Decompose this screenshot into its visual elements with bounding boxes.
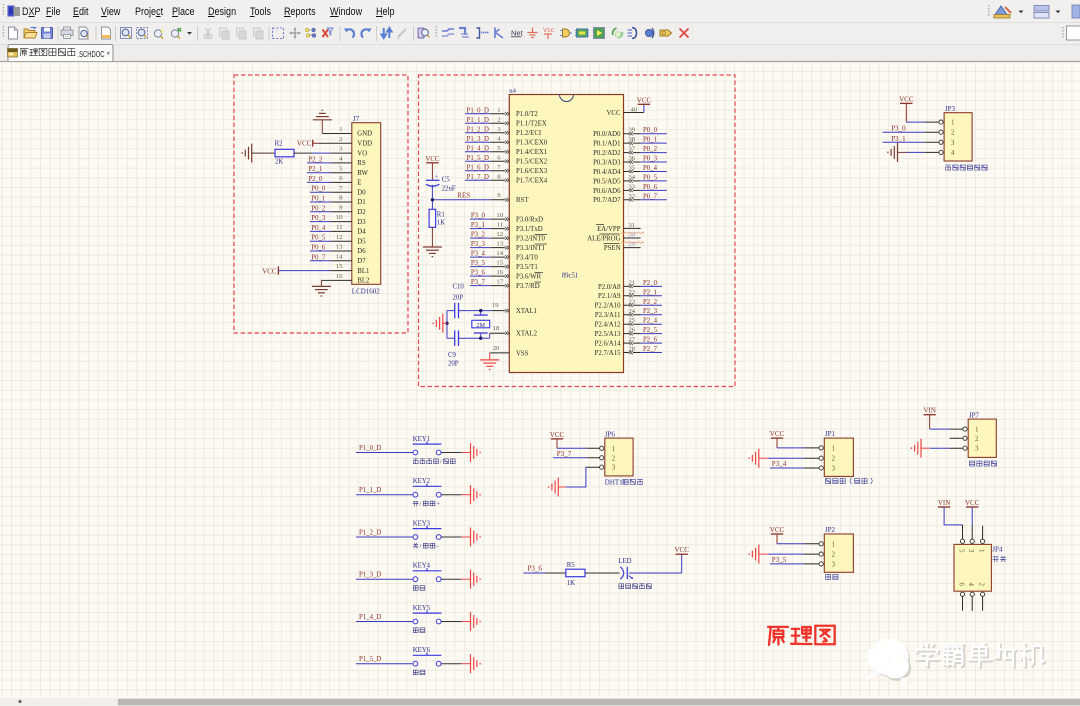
svg-text:17: 17 <box>496 279 503 286</box>
svg-text:1K: 1K <box>567 580 575 587</box>
svg-text:2: 2 <box>832 551 836 559</box>
svg-text:P3.6/WR: P3.6/WR <box>516 274 542 281</box>
svg-text:PSEN: PSEN <box>604 245 621 252</box>
svg-text:P0_2: P0_2 <box>311 205 326 212</box>
svg-text:LCD1602: LCD1602 <box>352 288 381 296</box>
svg-text:22: 22 <box>629 289 636 296</box>
svg-text:12: 12 <box>496 231 503 238</box>
svg-text:23: 23 <box>629 298 636 305</box>
svg-text:3: 3 <box>951 139 955 147</box>
svg-text:37: 37 <box>629 146 636 153</box>
svg-text:VCC: VCC <box>637 96 652 104</box>
svg-text:P3.7/RD: P3.7/RD <box>516 283 540 290</box>
svg-text:2: 2 <box>975 435 979 443</box>
svg-text:P0.3/AD3: P0.3/AD3 <box>593 159 621 166</box>
svg-text:JP4: JP4 <box>992 546 1003 554</box>
svg-text:1: 1 <box>951 119 955 127</box>
svg-text:JP7: JP7 <box>969 412 980 420</box>
svg-text:5: 5 <box>957 549 965 553</box>
svg-text:P2_6: P2_6 <box>643 337 658 344</box>
svg-text:VCC: VCC <box>297 139 312 147</box>
svg-text:P3_4: P3_4 <box>471 251 486 258</box>
svg-text:LED: LED <box>618 558 631 565</box>
svg-text:P1_4_D: P1_4_D <box>359 614 381 621</box>
svg-text:P1.7/CEX4: P1.7/CEX4 <box>516 178 548 185</box>
svg-text:JP3: JP3 <box>945 105 956 113</box>
svg-text:2M: 2M <box>476 322 485 329</box>
svg-text:VDD: VDD <box>357 141 372 148</box>
svg-text:P2.1/A9: P2.1/A9 <box>598 293 621 300</box>
svg-text:2: 2 <box>832 455 836 463</box>
svg-text:P3_5: P3_5 <box>772 556 787 564</box>
svg-text:VIN: VIN <box>923 407 935 415</box>
svg-text:JP6: JP6 <box>605 431 616 439</box>
svg-text:P0.7/AD7: P0.7/AD7 <box>593 197 621 204</box>
svg-text:3: 3 <box>967 549 975 553</box>
svg-text:1: 1 <box>977 549 985 553</box>
svg-text:R1: R1 <box>437 211 445 218</box>
svg-text:P2_1: P2_1 <box>308 166 322 173</box>
svg-text:P3.2/INT0: P3.2/INT0 <box>516 236 545 243</box>
svg-text:24: 24 <box>629 308 636 315</box>
svg-text:ALE/PROG: ALE/PROG <box>587 235 620 242</box>
svg-text:14: 14 <box>496 250 503 257</box>
svg-text:P1.5/CEX2: P1.5/CEX2 <box>516 159 548 166</box>
svg-text:P0_2: P0_2 <box>643 146 658 153</box>
svg-text:P3_5: P3_5 <box>471 260 486 267</box>
svg-text:P2_2: P2_2 <box>643 299 658 306</box>
svg-text:R5: R5 <box>567 562 576 569</box>
svg-text:P2_7: P2_7 <box>643 346 658 353</box>
svg-text:E: E <box>357 180 361 187</box>
svg-text:16: 16 <box>496 269 503 276</box>
svg-text:P1_0_D: P1_0_D <box>359 445 381 452</box>
svg-text:P3_0: P3_0 <box>891 125 906 133</box>
svg-text:P2.5/A13: P2.5/A13 <box>595 331 621 338</box>
svg-text:D4: D4 <box>357 229 366 236</box>
svg-text:VCC: VCC <box>770 430 785 438</box>
svg-text:20P: 20P <box>448 361 459 368</box>
svg-text:KEY2: KEY2 <box>413 478 431 485</box>
svg-text:10: 10 <box>336 214 343 221</box>
svg-text:P0_1: P0_1 <box>311 196 325 203</box>
svg-text:10: 10 <box>496 212 503 219</box>
svg-text:P3_2: P3_2 <box>471 232 486 239</box>
svg-text:15: 15 <box>336 263 343 270</box>
svg-text:P0.6/AD6: P0.6/AD6 <box>593 188 621 195</box>
svg-text:34: 34 <box>629 174 636 181</box>
svg-text:KEY3: KEY3 <box>413 521 431 528</box>
svg-text:D6: D6 <box>357 248 366 255</box>
svg-text:*: * <box>107 50 111 60</box>
svg-text:JP1: JP1 <box>825 430 836 438</box>
svg-text:+: + <box>435 175 439 181</box>
svg-text:P3.3/INT1: P3.3/INT1 <box>516 245 545 252</box>
svg-text:P3.5/T1: P3.5/T1 <box>516 264 538 271</box>
svg-text:P3_3: P3_3 <box>471 241 486 248</box>
svg-text:VCC: VCC <box>770 526 785 534</box>
svg-text:P2.7/A15: P2.7/A15 <box>595 350 621 357</box>
svg-text:P3.0/RxD: P3.0/RxD <box>516 217 543 224</box>
svg-text:19: 19 <box>492 302 499 309</box>
svg-text:RS: RS <box>357 160 366 167</box>
svg-text:P0_7: P0_7 <box>643 193 658 200</box>
svg-text:13: 13 <box>496 241 503 248</box>
svg-text:22uF: 22uF <box>442 186 456 193</box>
svg-text:Net: Net <box>511 29 524 38</box>
svg-text:RW: RW <box>357 170 368 177</box>
svg-text:P0_7: P0_7 <box>311 254 326 261</box>
svg-text:P3_0: P3_0 <box>471 213 486 220</box>
svg-text:36: 36 <box>629 155 636 162</box>
svg-text:D0: D0 <box>357 189 366 196</box>
svg-text:39: 39 <box>629 127 636 134</box>
svg-text:R2: R2 <box>275 141 284 148</box>
svg-text:BL2: BL2 <box>357 278 370 285</box>
svg-text:3: 3 <box>975 445 979 453</box>
svg-text:VCC: VCC <box>674 546 689 554</box>
svg-text:11: 11 <box>336 224 342 231</box>
svg-text:VCC: VCC <box>965 499 980 507</box>
svg-text:31: 31 <box>629 222 636 229</box>
svg-text:.SCHDOC: .SCHDOC <box>78 49 105 59</box>
svg-text:P1.4/CEX1: P1.4/CEX1 <box>516 149 547 156</box>
svg-text:P3.4/T0: P3.4/T0 <box>516 255 538 262</box>
svg-text:P2_5: P2_5 <box>643 327 658 334</box>
svg-text:4: 4 <box>951 149 955 157</box>
svg-text:6: 6 <box>957 583 965 587</box>
svg-text:P0.4/AD4: P0.4/AD4 <box>593 169 621 176</box>
svg-text:11: 11 <box>497 222 503 229</box>
svg-text:P0_6: P0_6 <box>311 245 326 252</box>
svg-text:P3_6: P3_6 <box>528 565 543 573</box>
svg-text:28: 28 <box>629 346 636 353</box>
svg-text:D1: D1 <box>357 199 365 206</box>
svg-text:P0_3: P0_3 <box>643 156 658 163</box>
svg-text:P3.1/TxD: P3.1/TxD <box>516 226 543 233</box>
svg-text:KEY6: KEY6 <box>413 647 431 654</box>
svg-text:VCC: VCC <box>425 155 440 163</box>
svg-text:P0_6: P0_6 <box>643 184 658 191</box>
svg-text:JP2: JP2 <box>825 526 836 534</box>
svg-text:27: 27 <box>629 336 636 343</box>
svg-text:P0.1/AD1: P0.1/AD1 <box>593 141 620 148</box>
svg-text:89c51: 89c51 <box>562 273 579 280</box>
svg-text:C5: C5 <box>442 177 451 184</box>
svg-text:C9: C9 <box>448 352 457 359</box>
svg-text:P2_3: P2_3 <box>643 308 658 315</box>
svg-text:P3_1: P3_1 <box>471 222 485 229</box>
svg-text:Vcc: Vcc <box>543 27 555 34</box>
svg-text:4: 4 <box>967 583 975 587</box>
svg-text:KEY4: KEY4 <box>413 563 431 570</box>
svg-text:GND: GND <box>357 131 372 138</box>
svg-text:P1.2/ECI: P1.2/ECI <box>516 130 542 137</box>
svg-text:D5: D5 <box>357 238 366 245</box>
svg-text:21: 21 <box>629 279 636 286</box>
svg-text:2: 2 <box>977 583 985 587</box>
svg-text:-: - <box>436 543 438 550</box>
svg-text:P0.2/AD2: P0.2/AD2 <box>593 150 621 157</box>
svg-text:3: 3 <box>612 464 616 472</box>
svg-text:1: 1 <box>975 426 979 434</box>
svg-text:40: 40 <box>631 107 638 114</box>
svg-text:13: 13 <box>336 244 343 251</box>
svg-text:D3: D3 <box>357 219 366 226</box>
svg-text:P1.0/T2: P1.0/T2 <box>516 111 538 118</box>
svg-text:RES: RES <box>457 192 470 200</box>
svg-text:2: 2 <box>612 454 616 462</box>
svg-text:/: / <box>420 501 422 508</box>
svg-text:3: 3 <box>832 560 836 568</box>
svg-text:RST: RST <box>516 197 529 204</box>
svg-text:VSS: VSS <box>516 350 529 357</box>
svg-text:P2.0/A8: P2.0/A8 <box>598 284 621 291</box>
svg-text:16: 16 <box>336 273 343 280</box>
svg-text:XTAL1: XTAL1 <box>516 308 537 315</box>
svg-text:KEY5: KEY5 <box>413 605 431 612</box>
svg-text:/: / <box>420 543 422 550</box>
svg-text:D: D <box>662 31 666 37</box>
svg-text:P1_6_D: P1_6_D <box>467 164 489 171</box>
svg-text:VO: VO <box>357 150 367 157</box>
svg-text:C10: C10 <box>453 283 465 290</box>
svg-text:P1_2_D: P1_2_D <box>467 126 489 133</box>
svg-text:3: 3 <box>832 465 836 473</box>
svg-text:D7: D7 <box>357 258 366 265</box>
svg-text:1: 1 <box>832 444 836 452</box>
svg-text:P1.3/CEX0: P1.3/CEX0 <box>516 140 548 147</box>
svg-text:P1_5_D: P1_5_D <box>467 155 489 162</box>
svg-text:2: 2 <box>497 116 500 123</box>
svg-text:P1_7_D: P1_7_D <box>467 174 489 181</box>
svg-text:1: 1 <box>339 126 342 133</box>
svg-text:P0.0/AD0: P0.0/AD0 <box>593 131 621 138</box>
svg-text:XTAL2: XTAL2 <box>516 331 538 338</box>
svg-text:VIN: VIN <box>938 499 950 507</box>
svg-text:P1_3_D: P1_3_D <box>467 136 489 143</box>
svg-text:P0_4: P0_4 <box>643 165 658 172</box>
svg-text:VCC: VCC <box>899 95 914 103</box>
svg-text:2: 2 <box>951 129 955 137</box>
svg-text:P0_0: P0_0 <box>643 127 658 134</box>
svg-text:P0_4: P0_4 <box>311 225 326 232</box>
svg-text:VCC: VCC <box>262 267 277 275</box>
svg-text:P3_6: P3_6 <box>471 270 486 277</box>
svg-text:J7: J7 <box>353 115 360 123</box>
svg-text:14: 14 <box>336 253 343 260</box>
svg-text:1: 1 <box>497 107 500 114</box>
svg-text:20: 20 <box>493 345 500 352</box>
svg-text:P1_2_D: P1_2_D <box>359 530 381 537</box>
svg-text:2K: 2K <box>275 159 283 166</box>
svg-text:P0_3: P0_3 <box>311 215 326 222</box>
svg-text:35: 35 <box>629 165 636 172</box>
svg-text:P2_1: P2_1 <box>643 289 657 296</box>
svg-text:38: 38 <box>629 136 636 143</box>
svg-text:VCC: VCC <box>607 110 621 117</box>
svg-text:P1_5_D: P1_5_D <box>359 656 381 663</box>
svg-text:u4: u4 <box>509 88 516 95</box>
svg-text:P2_4: P2_4 <box>643 318 658 325</box>
svg-text:32: 32 <box>629 193 636 200</box>
svg-text:P2.3/A11: P2.3/A11 <box>595 312 621 319</box>
svg-text:P2.2/A10: P2.2/A10 <box>595 303 621 310</box>
svg-text:D2: D2 <box>357 209 366 216</box>
svg-text:1: 1 <box>612 445 616 453</box>
svg-text:2: 2 <box>339 136 342 143</box>
svg-text:P2_0: P2_0 <box>308 176 323 183</box>
svg-text:P0_1: P0_1 <box>643 137 657 144</box>
svg-text:/: / <box>440 459 442 466</box>
svg-text:P0_0: P0_0 <box>311 186 326 193</box>
svg-text:20P: 20P <box>453 295 464 302</box>
svg-text:EA/VPP: EA/VPP <box>597 226 621 233</box>
svg-text:18: 18 <box>493 325 500 332</box>
svg-text:1K: 1K <box>437 220 445 227</box>
svg-text:P1_4_D: P1_4_D <box>467 145 489 152</box>
svg-text:+: + <box>436 501 440 508</box>
svg-text:1: 1 <box>832 540 836 548</box>
svg-text:25: 25 <box>629 317 636 324</box>
svg-text:33: 33 <box>629 183 636 190</box>
svg-text:P1_3_D: P1_3_D <box>359 572 381 579</box>
svg-text:P1_0_D: P1_0_D <box>467 107 489 114</box>
svg-text:P3_1: P3_1 <box>891 135 906 143</box>
svg-text:P0.5/AD5: P0.5/AD5 <box>593 178 621 185</box>
svg-text:P1.1/T2EX: P1.1/T2EX <box>516 121 547 128</box>
svg-text:P1_1_D: P1_1_D <box>359 487 381 494</box>
svg-text:P1.6/CEX3: P1.6/CEX3 <box>516 168 548 175</box>
svg-text:P1_1_D: P1_1_D <box>467 117 489 124</box>
svg-text:VCC: VCC <box>550 431 565 439</box>
svg-text:P0_5: P0_5 <box>643 174 658 181</box>
svg-text:P3_4: P3_4 <box>772 460 787 468</box>
svg-text:P2_2: P2_2 <box>308 156 323 163</box>
svg-text:15: 15 <box>496 260 503 267</box>
svg-text:12: 12 <box>336 234 343 241</box>
svg-text:P3_7: P3_7 <box>471 279 486 286</box>
svg-text:BL1: BL1 <box>357 268 369 275</box>
svg-text:P0_5: P0_5 <box>311 235 326 242</box>
svg-text:P3_7: P3_7 <box>557 450 572 458</box>
svg-text:P2.6/A14: P2.6/A14 <box>595 341 621 348</box>
svg-text:26: 26 <box>629 327 636 334</box>
svg-text:P2.4/A12: P2.4/A12 <box>595 322 621 329</box>
svg-text:P2_0: P2_0 <box>643 280 658 287</box>
